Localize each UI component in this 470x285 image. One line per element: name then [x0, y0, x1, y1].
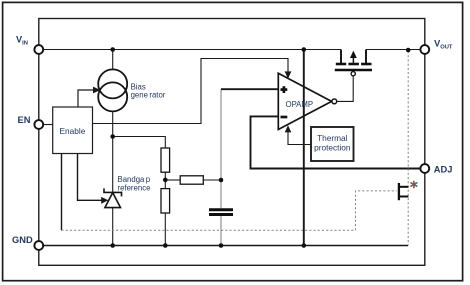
svg-text:reference: reference [118, 184, 151, 193]
plus marker [281, 86, 288, 93]
wire Enable to opamp top (arrow) [93, 59, 289, 124]
pin EN [34, 120, 43, 129]
opamp output bubble [332, 99, 337, 104]
wire VOUT rail [366, 49, 425, 51]
block Enable [53, 107, 93, 154]
wire GND rail [39, 245, 408, 247]
wire bias top [112, 50, 114, 70]
minus marker [281, 116, 288, 119]
transistor Q1 pass PMOS [335, 50, 372, 71]
pin ADJ [420, 164, 429, 173]
wire Enable to discharge gate (solid part) [61, 154, 63, 231]
wire bias to bandgap [112, 111, 114, 192]
pin GND [34, 241, 43, 250]
wire Enable to bandgap arrow [78, 154, 103, 201]
pin VIN [34, 45, 43, 54]
node junction dots [110, 47, 410, 248]
wire plus input [221, 88, 278, 90]
svg-text:Thermal: Thermal [317, 133, 348, 143]
wire thermal to opamp (arrow) [288, 132, 311, 145]
IC boundary box [39, 19, 425, 266]
wire opamp output to gate [337, 76, 354, 102]
wire R2 to gnd [164, 213, 166, 246]
resistor R1 [161, 148, 170, 172]
wire R1 to tap [164, 172, 166, 188]
wire bandgap node to R1 [113, 137, 166, 149]
wire R3 to plus node [203, 179, 221, 181]
pin VOUT [420, 45, 429, 54]
diode D1 bandgap reference [104, 188, 122, 207]
svg-text:protection: protection [314, 143, 351, 153]
wire minus input from ADJ [251, 116, 425, 168]
wire VIN rail [39, 49, 341, 51]
svg-text:Bandgap: Bandgap [118, 175, 151, 184]
wire bandgap to gnd [112, 208, 114, 246]
svg-text:ADJ: ADJ [434, 165, 453, 175]
wire EN pin to Enable [39, 124, 53, 126]
svg-text:EN: EN [18, 115, 31, 125]
svg-text:Enable: Enable [59, 126, 85, 136]
resistor R3 [180, 176, 203, 184]
transistor Q2 discharge (optional) [399, 183, 409, 200]
wire dashed enable to discharge gate [62, 191, 397, 230]
resistor R2 [161, 189, 170, 213]
block thermal protection [311, 127, 354, 161]
wire enable to bias arrow [78, 90, 95, 107]
wire dashed feedback from VOUT node [407, 51, 409, 245]
current source U bias generator [98, 69, 127, 111]
wire tap to R3 [165, 179, 180, 181]
svg-text:OPAMP: OPAMP [286, 100, 314, 109]
op-amp U1 [278, 73, 331, 129]
capacitor C1 [209, 208, 233, 211]
asterisk optional marker [411, 181, 417, 187]
svg-text:GND: GND [12, 235, 33, 245]
wire main vertical rail [303, 50, 305, 246]
wire plus node vertical [220, 89, 222, 208]
